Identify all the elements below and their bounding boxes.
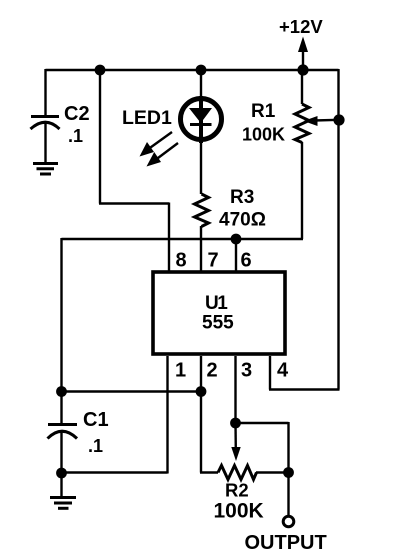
svg-text:.1: .1 [88,436,103,456]
svg-text:2: 2 [207,360,218,382]
svg-text:470Ω: 470Ω [219,210,266,231]
svg-text:1: 1 [175,360,186,382]
svg-text:U1: U1 [205,293,228,314]
svg-text:100K: 100K [214,500,264,523]
svg-text:LED1: LED1 [122,107,172,129]
svg-text:7: 7 [208,250,219,272]
svg-text:3: 3 [241,360,252,382]
svg-text:555: 555 [202,313,234,334]
svg-text:C2: C2 [64,103,90,125]
svg-text:6: 6 [241,250,252,272]
svg-text:8: 8 [176,250,187,272]
svg-text:+12V: +12V [279,16,323,37]
svg-text:.1: .1 [68,126,83,146]
svg-text:R2: R2 [225,480,249,501]
svg-text:4: 4 [277,360,289,382]
svg-text:R3: R3 [230,187,254,208]
svg-text:C1: C1 [83,409,109,431]
svg-text:OUTPUT: OUTPUT [245,532,327,554]
svg-text:100K: 100K [242,125,285,145]
svg-text:R1: R1 [251,101,276,122]
